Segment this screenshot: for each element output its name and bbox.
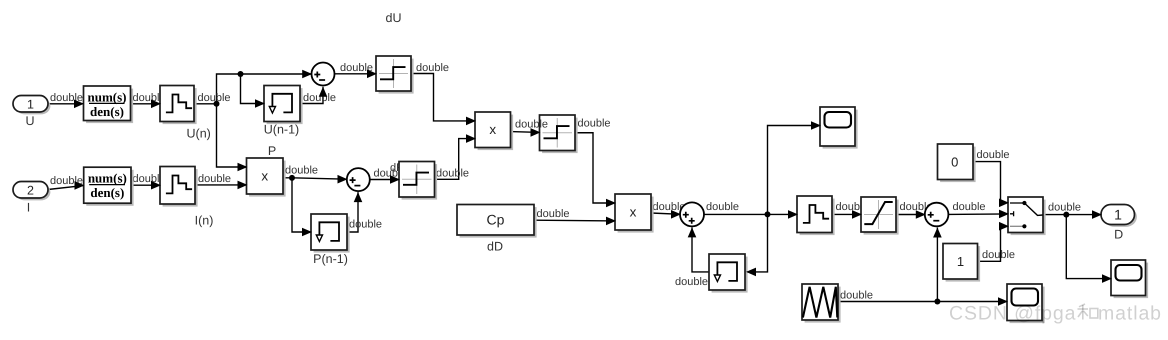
svg-text:I(n): I(n) — [195, 214, 214, 228]
svg-text:x: x — [261, 169, 268, 184]
svg-text:double: double — [675, 276, 708, 288]
svg-text:I: I — [27, 201, 30, 215]
svg-text:double: double — [436, 168, 469, 180]
svg-text:double: double — [349, 219, 382, 231]
svg-text:num(s): num(s) — [88, 171, 127, 186]
svg-text:num(s): num(s) — [87, 90, 126, 105]
svg-text:Cp: Cp — [487, 212, 505, 228]
svg-text:double: double — [840, 290, 873, 302]
svg-text:dD: dD — [487, 240, 503, 254]
svg-text:double: double — [706, 201, 739, 213]
svg-text:double: double — [537, 208, 570, 220]
svg-text:double: double — [198, 173, 231, 185]
svg-text:den(s): den(s) — [90, 185, 124, 200]
svg-text:CSDN @fpga: CSDN @fpga — [949, 303, 1076, 325]
svg-text:double: double — [578, 118, 611, 130]
svg-text:double: double — [953, 201, 986, 213]
svg-text:D: D — [1114, 228, 1123, 242]
svg-text:P(n-1): P(n-1) — [313, 252, 348, 266]
svg-text:x: x — [489, 122, 496, 137]
svg-text:1: 1 — [957, 254, 964, 269]
svg-text:P: P — [268, 144, 276, 158]
svg-text:U(n-1): U(n-1) — [264, 123, 299, 137]
svg-text:x: x — [630, 205, 637, 220]
svg-text:double: double — [303, 92, 336, 104]
svg-text:U: U — [25, 114, 34, 128]
svg-text:double: double — [977, 149, 1010, 161]
svg-text:double: double — [416, 62, 449, 74]
svg-text:U(n): U(n) — [187, 127, 211, 141]
svg-text:1: 1 — [1114, 207, 1122, 223]
svg-text:double: double — [982, 249, 1015, 261]
svg-text:0: 0 — [951, 155, 958, 170]
svg-text:dU: dU — [386, 11, 402, 25]
svg-text:double: double — [285, 165, 318, 177]
svg-text:matlab: matlab — [1098, 303, 1162, 325]
svg-text:2: 2 — [27, 183, 34, 197]
svg-text:1: 1 — [27, 97, 34, 111]
svg-text:den(s): den(s) — [90, 104, 124, 119]
svg-text:double: double — [1048, 202, 1081, 214]
